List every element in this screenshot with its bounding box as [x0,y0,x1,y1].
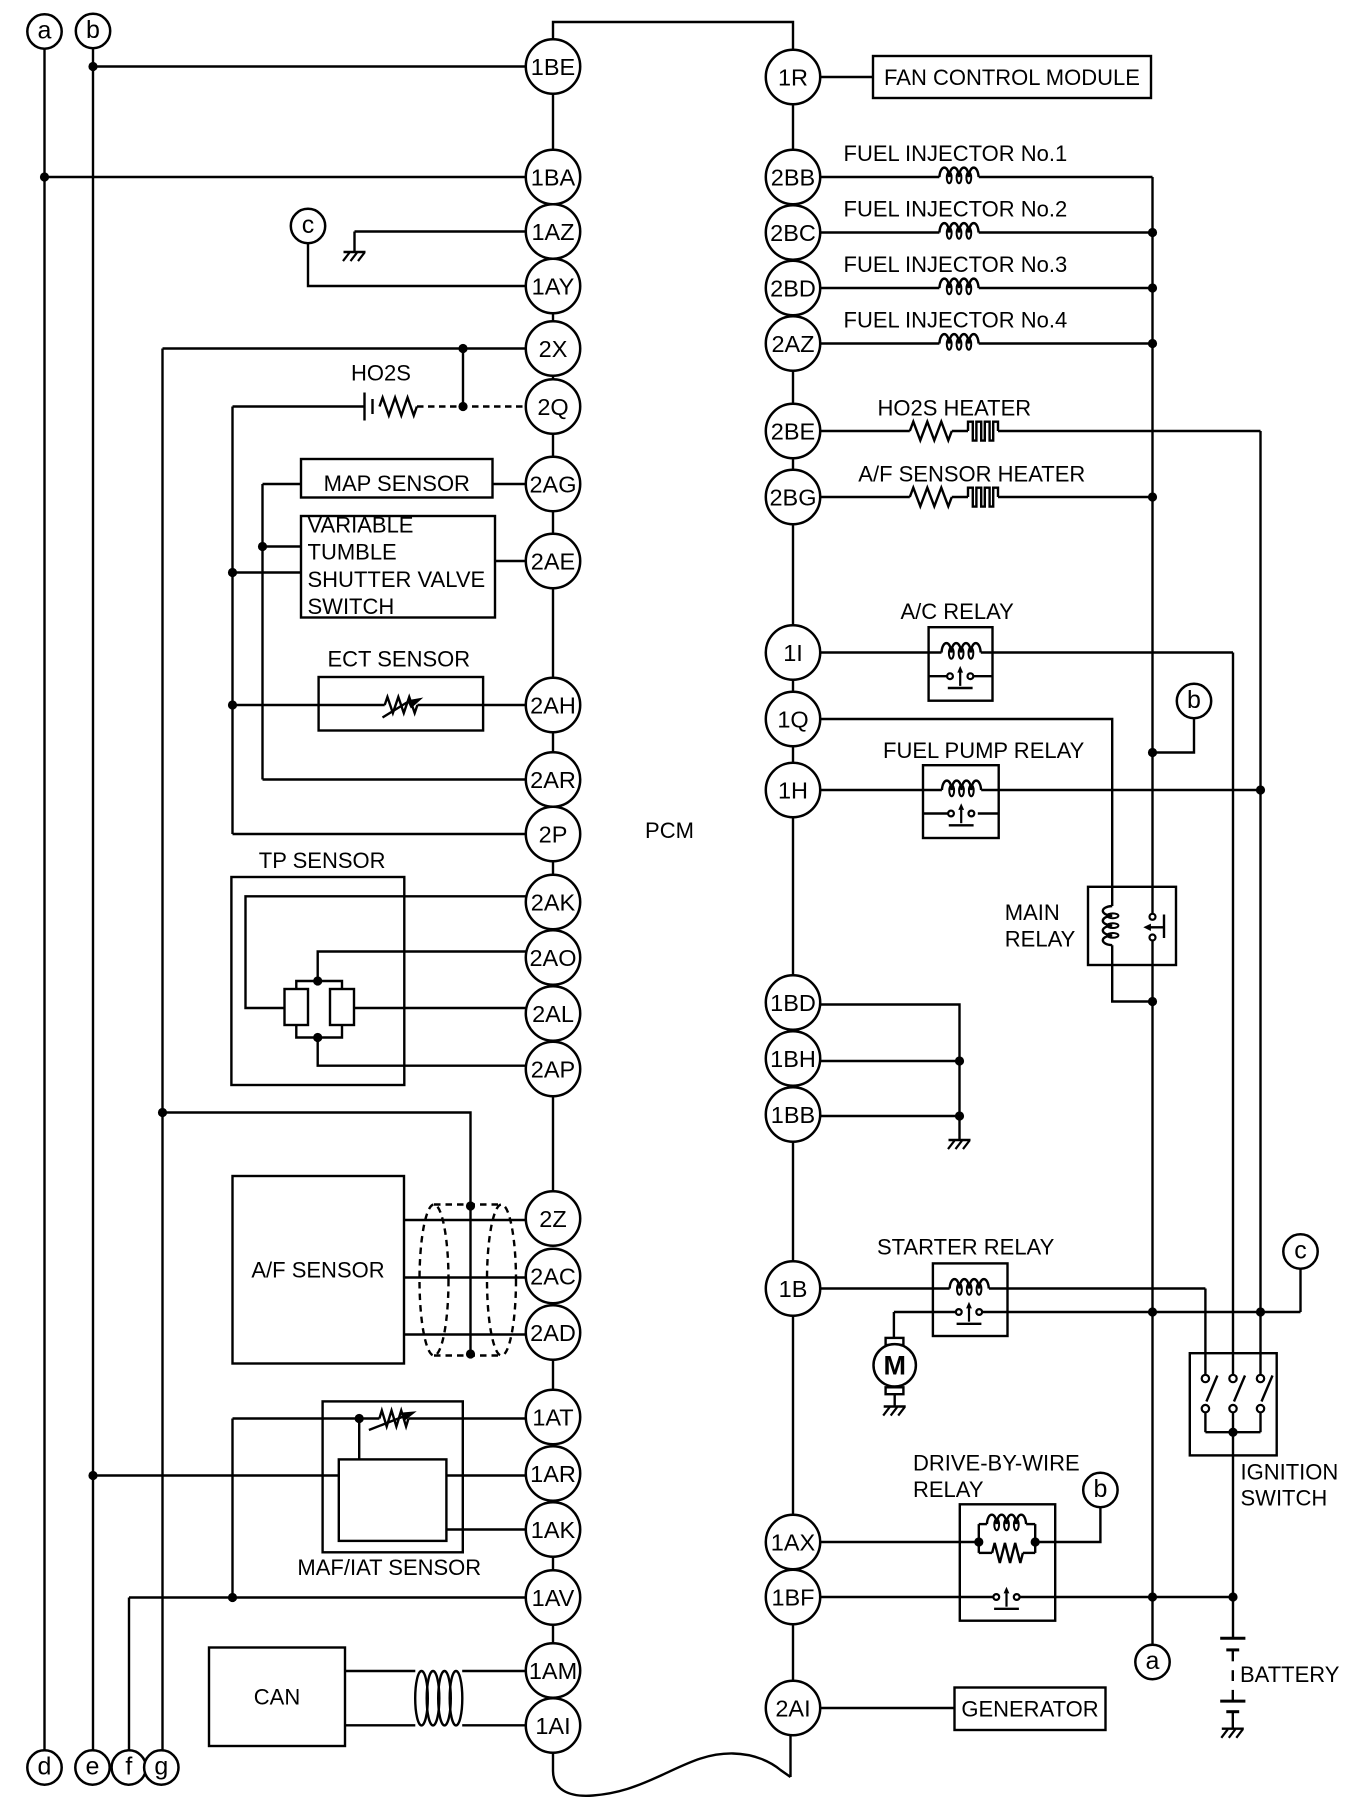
shield (A/F sensor cable) [420,1205,517,1356]
resistor ECT thermistor [385,697,418,713]
wire 1BD group [819,1005,959,1117]
wire A/F heater to bus [998,496,1153,498]
svg-text:1BB: 1BB [771,1102,815,1128]
svg-text:e: e [86,1752,100,1780]
wire CAN high left [345,1670,415,1672]
node c [1283,1234,1317,1268]
relay contact main (lower) [1150,935,1156,941]
PCM pin 1AK [526,1502,580,1556]
junction ignition switch output [1228,1428,1237,1437]
node a [27,14,61,48]
wire pin column segment [552,1096,554,1191]
ECT sensor box [319,677,484,731]
wire ECT row left [233,704,385,706]
wire MAF stem [358,1419,360,1460]
svg-text:DRIVE-BY-WIRE: DRIVE-BY-WIRE [913,1451,1080,1476]
node g [144,1750,178,1784]
wire pin column segment [792,1316,794,1515]
node d [27,1750,61,1784]
svg-text:TP SENSOR: TP SENSOR [259,848,386,873]
PCM pin 2AC [526,1249,580,1303]
wire pin column segment [552,1360,554,1390]
svg-text:HO2S: HO2S [351,361,411,386]
junction a-line / 1BA wire [40,172,49,181]
wire 2AK to TP resistor [246,896,527,1008]
svg-text:1AI: 1AI [535,1713,570,1739]
svg-text:FUEL INJECTOR No.3: FUEL INJECTOR No.3 [844,252,1068,277]
wire pin column segment [792,524,794,625]
wire 2AI bottom stub [789,1735,791,1777]
wire vertical MAP-2AR line [261,484,263,780]
wire pin column segment [552,94,554,150]
PCM pin 2BE [766,404,820,458]
PCM pin 2AR [526,752,580,806]
wire FP relay switch right stub [978,812,999,814]
MAF/IAT sensor outer box [323,1401,463,1552]
wire ignition pole 3 lower stub [1259,1412,1261,1432]
PCM pin 2AZ [766,316,820,370]
wire A/F to pin 2AD [404,1333,527,1335]
svg-text:MAP SENSOR: MAP SENSOR [324,471,470,496]
svg-text:2BG: 2BG [769,484,816,510]
wire injector 2BD to bus [979,287,1153,289]
svg-text:FUEL INJECTOR No.2: FUEL INJECTOR No.2 [844,197,1068,222]
junction shield bottom [466,1349,475,1358]
wire a-line to pin 1BA [45,176,527,178]
PCM pin 1AV [526,1570,580,1624]
svg-text:1Q: 1Q [777,706,808,732]
svg-text:1AR: 1AR [530,1461,576,1487]
svg-text:SWITCH: SWITCH [308,594,395,619]
wire injector 2BC to bus [979,231,1153,233]
svg-text:c: c [302,211,315,239]
svg-text:RELAY: RELAY [913,1477,984,1502]
inductor fuel pump relay coil [942,781,981,797]
wire A/F to pin 2Z [404,1219,527,1221]
wire main bus upper [1151,177,1153,914]
svg-text:ECT SENSOR: ECT SENSOR [328,647,471,672]
wire TP to pin 2AP [318,1038,527,1066]
wire starter switch to motor [893,1312,895,1338]
wire 1BF to DBW switch [819,1596,993,1598]
svg-text:2AP: 2AP [531,1056,575,1082]
wire pin column segment [792,1142,794,1262]
wire ignition pole 1 lower stub [1204,1412,1206,1432]
svg-text:1AZ: 1AZ [531,219,574,245]
svg-text:2AK: 2AK [531,889,576,915]
resistor A/F sensor heater [910,488,952,507]
HO2S sensor plate short [371,399,373,414]
inductor FUEL INJECTOR No.3 coil [939,279,978,295]
PCM pin 2X [526,321,580,375]
wire TP to pin 2AL [354,1007,527,1009]
svg-text:HO2S HEATER: HO2S HEATER [878,396,1032,421]
ignition switch pole 1 blade [1206,1376,1217,1402]
svg-text:a: a [38,16,52,44]
variable tumble shutter valve switch box [301,516,495,618]
twisted pair symbol [415,1671,462,1725]
HO2S sensor plate tall [363,393,365,421]
PCM pin 2P [526,807,580,861]
junction 2X wire / HO2S branch [458,344,467,353]
wire 1B to starter relay coil [819,1287,949,1289]
svg-text:FUEL INJECTOR No.4: FUEL INJECTOR No.4 [844,308,1068,333]
ignition switch box [1190,1353,1277,1455]
PCM pin 1BF [766,1570,820,1624]
svg-text:M: M [883,1351,906,1381]
battery BATTERY [1220,1638,1245,1729]
junction on 2Q dashed wire [458,402,467,411]
wire 2Q dashed [417,405,527,407]
wire c to pin 1AY [308,243,527,286]
junction 1H wire / pole3 line [1256,785,1265,794]
svg-text:SHUTTER VALVE: SHUTTER VALVE [308,567,486,592]
wire pin column segment [552,313,554,321]
svg-text:1AK: 1AK [531,1517,576,1543]
wire f-line vertical [128,1598,130,1751]
wire pin column segment [792,817,794,975]
wire CAN high to pin 1AM [462,1670,527,1672]
PCM pin 1BB [766,1087,820,1141]
svg-text:FUEL INJECTOR No.1: FUEL INJECTOR No.1 [844,141,1068,166]
node b [1177,684,1211,718]
ignition switch pole 3 blade [1262,1376,1273,1402]
svg-text:1H: 1H [778,777,808,803]
wire DBW resistor lead left [979,1552,992,1554]
wire ECT row right [417,704,526,706]
ignition switch pole 1 contact top [1202,1375,1209,1382]
junction 1BF row / bus [1148,1592,1157,1601]
svg-text:CAN: CAN [254,1685,300,1710]
svg-text:2AC: 2AC [530,1263,576,1289]
junction TP bottom [313,1033,322,1042]
junction b branch / bus [1148,748,1157,757]
ignition switch pole 2 blade [1234,1376,1245,1402]
junction MAF stem [355,1414,364,1423]
wire FP relay switch left stub [923,812,951,814]
inductor FUEL INJECTOR No.4 coil [939,334,978,350]
wire 1BE-top to 1R-top [553,22,793,50]
svg-text:2BC: 2BC [770,220,816,246]
ground (battery) [1221,1729,1244,1738]
svg-text:2AZ: 2AZ [771,331,814,357]
wire ignition pole3 vertical [1259,431,1261,1375]
PCM pin 2Z [526,1191,580,1245]
svg-text:b: b [1187,686,1201,714]
wire pin column segment [552,434,554,457]
ignition switch pole 2 contact top [1229,1375,1236,1382]
svg-text:a: a [1146,1647,1160,1675]
wire pin column segment [792,1624,794,1681]
starter relay box [933,1263,1008,1336]
wire vertical HO2S-2P line [231,407,233,835]
wire ignition switch to battery [1232,1432,1234,1638]
junction injector bus [1148,339,1157,348]
wire vertical 1AT to 1AV [231,1419,233,1598]
PCM pin 2AL [526,986,580,1040]
PCM pin 1B [766,1261,820,1315]
junction 1AT line / 1AV wire [228,1593,237,1602]
ground (1BB group) [948,1140,971,1149]
svg-text:2AD: 2AD [530,1320,576,1346]
wire 1BH row [819,1060,959,1062]
junction shield top [466,1201,475,1210]
node b [76,14,110,48]
wire pin column segment [552,588,554,678]
wire motor ground stem [894,1394,896,1406]
wire DBW switch to battery line [1020,1596,1233,1598]
PCM pin 2BB [766,150,820,204]
PCM pin 2BD [766,261,820,315]
node f [112,1750,146,1784]
svg-text:FAN CONTROL MODULE: FAN CONTROL MODULE [884,65,1140,90]
wire A/C relay switch left stub [929,675,947,677]
wire DBW left riser [978,1524,980,1553]
wire pin column segment [552,376,554,380]
svg-text:1I: 1I [783,640,803,666]
svg-text:2AR: 2AR [530,767,576,793]
main relay arrow [1149,926,1164,928]
svg-text:2BB: 2BB [771,164,815,190]
wire pin column segment [792,458,794,470]
wire DBW resistor lead right [1023,1552,1035,1554]
junction 1BB [955,1111,964,1120]
wire VTSV input 1 [263,545,302,547]
wire b-line vertical b to e [92,48,94,1750]
svg-text:MAIN: MAIN [1005,900,1060,925]
wire 2Q row left [233,405,365,407]
PCM pin 1AI [526,1698,580,1752]
svg-text:2X: 2X [539,336,568,362]
wire DBW coil lead left [979,1523,987,1525]
PCM pin 1BD [766,975,820,1029]
svg-text:A/F SENSOR: A/F SENSOR [251,1258,384,1283]
svg-text:GENERATOR: GENERATOR [961,1697,1098,1722]
resistor MAF variable [379,1411,408,1427]
junction VTSV wire2 [228,568,237,577]
junction g-line / shield drain [158,1108,167,1117]
GENERATOR box [955,1688,1106,1731]
wire main bus lower [1151,941,1153,1645]
wire 1Q to main relay coil [819,719,1112,906]
wire starter switch right [982,1311,1300,1313]
wire main relay coil to bus [1112,945,1152,1001]
relay contact starter [956,1302,982,1324]
PCM pin 2AI [766,1681,820,1735]
wire ground stem 1BB group [958,1116,960,1140]
A/C relay box [929,627,993,701]
PCM pin 1Q [766,692,820,746]
wire 2BB to injector coil [819,176,939,178]
node c [291,209,325,243]
svg-text:FUEL PUMP RELAY: FUEL PUMP RELAY [883,738,1085,763]
relay contact fuel pump [948,803,974,825]
wire 1AT row left [233,1417,380,1419]
wire pin column segment [792,680,794,692]
junction DBW right [1031,1537,1040,1546]
svg-text:1BE: 1BE [531,54,575,80]
PCM pin 1AR [526,1446,580,1500]
svg-text:MAF/IAT SENSOR: MAF/IAT SENSOR [297,1555,481,1580]
wire pin column segment [552,511,554,534]
wire b to pin 1BE [93,65,527,67]
wire 1AX to DBW relay [819,1541,979,1543]
svg-text:1AM: 1AM [529,1658,577,1684]
svg-text:1B: 1B [779,1276,808,1302]
svg-text:BATTERY: BATTERY [1240,1662,1340,1687]
relay contact A/C [947,666,973,688]
FAN CONTROL MODULE box [873,56,1151,98]
svg-text:b: b [1093,1475,1107,1503]
TP sensor box [231,877,404,1085]
wire DBW right riser [1034,1524,1036,1553]
wire shield drain [163,1113,471,1355]
MAF variable resistor arrow [369,1416,404,1430]
wire 1AK row [446,1528,526,1530]
wire pin column segment [552,732,554,752]
resistor HO2S element [380,398,417,416]
junction b-line / 1AR wire [88,1471,97,1480]
svg-text:1BA: 1BA [531,164,576,190]
junction VTSV wire1 [258,542,267,551]
wire 2BC to injector coil [819,231,939,233]
wire pin column segment [552,1557,554,1571]
wire TP bottom connector [296,1026,342,1038]
wire 2AZ to injector coil [819,342,939,344]
wire ignition switch output bar [1205,1431,1260,1433]
wire pin column segment [552,861,554,875]
svg-text:1BF: 1BF [771,1584,814,1610]
wire MAP to pin 2AG [493,483,527,485]
heater element HO2S [968,422,998,441]
junction ECT wire [228,700,237,709]
svg-text:2Z: 2Z [539,1206,566,1232]
junction b-line / 1BE wire [88,62,97,71]
inductor A/C relay coil [942,643,981,659]
svg-text:PCM: PCM [645,818,694,843]
PCM pin 1H [766,763,820,817]
heater element A/F sensor [968,488,998,507]
wire 1AZ ground stem [353,232,355,253]
PCM pin 2AG [526,457,580,511]
wire A/F heater mid [952,496,968,498]
wire DBW coil lead right [1026,1523,1035,1525]
wire 1H to fuel pump relay coil [819,789,942,791]
A/F sensor box [233,1176,405,1364]
wire 2AR row [263,778,527,780]
PCM pin 2AH [526,678,580,732]
motor M terminal bottom [886,1387,904,1394]
wire 2BE to resistor [819,430,910,432]
wire PCM bottom squiggle [553,1753,791,1796]
svg-text:2AL: 2AL [532,1001,574,1027]
svg-text:2AH: 2AH [530,692,576,718]
wire starter coil to pole1 line [989,1287,1206,1289]
resistor DBW relay [992,1543,1023,1563]
wire pin column segment [792,371,794,404]
ignition switch pole 3 contact top [1257,1375,1264,1382]
svg-text:2P: 2P [539,821,568,847]
svg-text:f: f [125,1752,132,1780]
wire branch 2X to 2Q [462,349,464,407]
svg-text:g: g [154,1752,168,1780]
resistor TP right [330,989,354,1025]
ground (starter motor) [883,1407,906,1416]
wire c branch [1299,1269,1301,1312]
main relay box [1088,887,1176,965]
node a [1135,1645,1169,1679]
wire g-line vertical [161,349,163,1751]
svg-text:RELAY: RELAY [1005,927,1076,952]
relay contact main (upper) [1150,914,1156,920]
PCM pin 1BA [526,150,580,204]
wire CAN low to pin 1AI [462,1724,527,1726]
PCM pin 2AD [526,1305,580,1359]
svg-text:b: b [86,16,100,44]
node e [75,1750,109,1784]
wire 1AT row right [409,1417,527,1419]
svg-text:2AI: 2AI [775,1695,810,1721]
wire DBW to b [1035,1507,1100,1542]
svg-text:1AT: 1AT [532,1404,573,1430]
PCM pin 2AP [526,1042,580,1096]
svg-text:IGNITION: IGNITION [1241,1460,1339,1485]
wire A/C relay coil to ignition line [981,651,1233,653]
junction DBW left [974,1537,983,1546]
PCM pin 1R [766,50,820,104]
main relay movable bar [1163,915,1165,939]
svg-text:A/F SENSOR HEATER: A/F SENSOR HEATER [858,462,1085,487]
wire 2AI to generator [819,1707,954,1709]
resistor HO2S heater [910,422,952,441]
PCM pin 1AT [526,1390,580,1444]
motor M [874,1344,916,1386]
junction starter row / bus [1148,1307,1157,1316]
svg-text:c: c [1294,1236,1307,1264]
wire A/F to pin 2AC [404,1276,527,1278]
PCM pin 1AY [526,259,580,313]
motor M terminal top [886,1338,904,1345]
wire starter switch left [894,1311,956,1313]
svg-text:d: d [38,1752,52,1780]
ignition switch pole 1 contact bottom [1202,1405,1209,1412]
node b [1083,1473,1117,1507]
svg-text:1AV: 1AV [532,1585,575,1611]
PCM pin 2AO [526,930,580,984]
wire fuel pump coil to pole3 line [981,789,1260,791]
wire MAP left [263,483,302,485]
junction starter row / pole3 line [1256,1307,1265,1316]
wire VTSV input 2 [233,571,302,573]
PCM pin 2AE [526,534,580,588]
wire pin column segment [552,1625,554,1644]
PCM pin 2BC [766,205,820,259]
wire 2P row [233,833,527,835]
junction 1BF row / battery line [1228,1592,1237,1601]
ECT thermistor arrow [383,701,410,718]
svg-text:1R: 1R [778,64,808,90]
drive-by-wire relay box [960,1504,1055,1620]
wire ignition pole 2 lower stub [1232,1412,1234,1432]
wire injector 2AZ to bus [979,342,1153,344]
junction injector bus [1148,228,1157,237]
wire 1AR row right [446,1474,526,1476]
wire 2X row [163,347,527,349]
wire pin column segment [792,104,794,150]
PCM pin 2Q [526,379,580,433]
MAP sensor box [301,459,493,498]
ground (1AZ) [343,252,366,261]
